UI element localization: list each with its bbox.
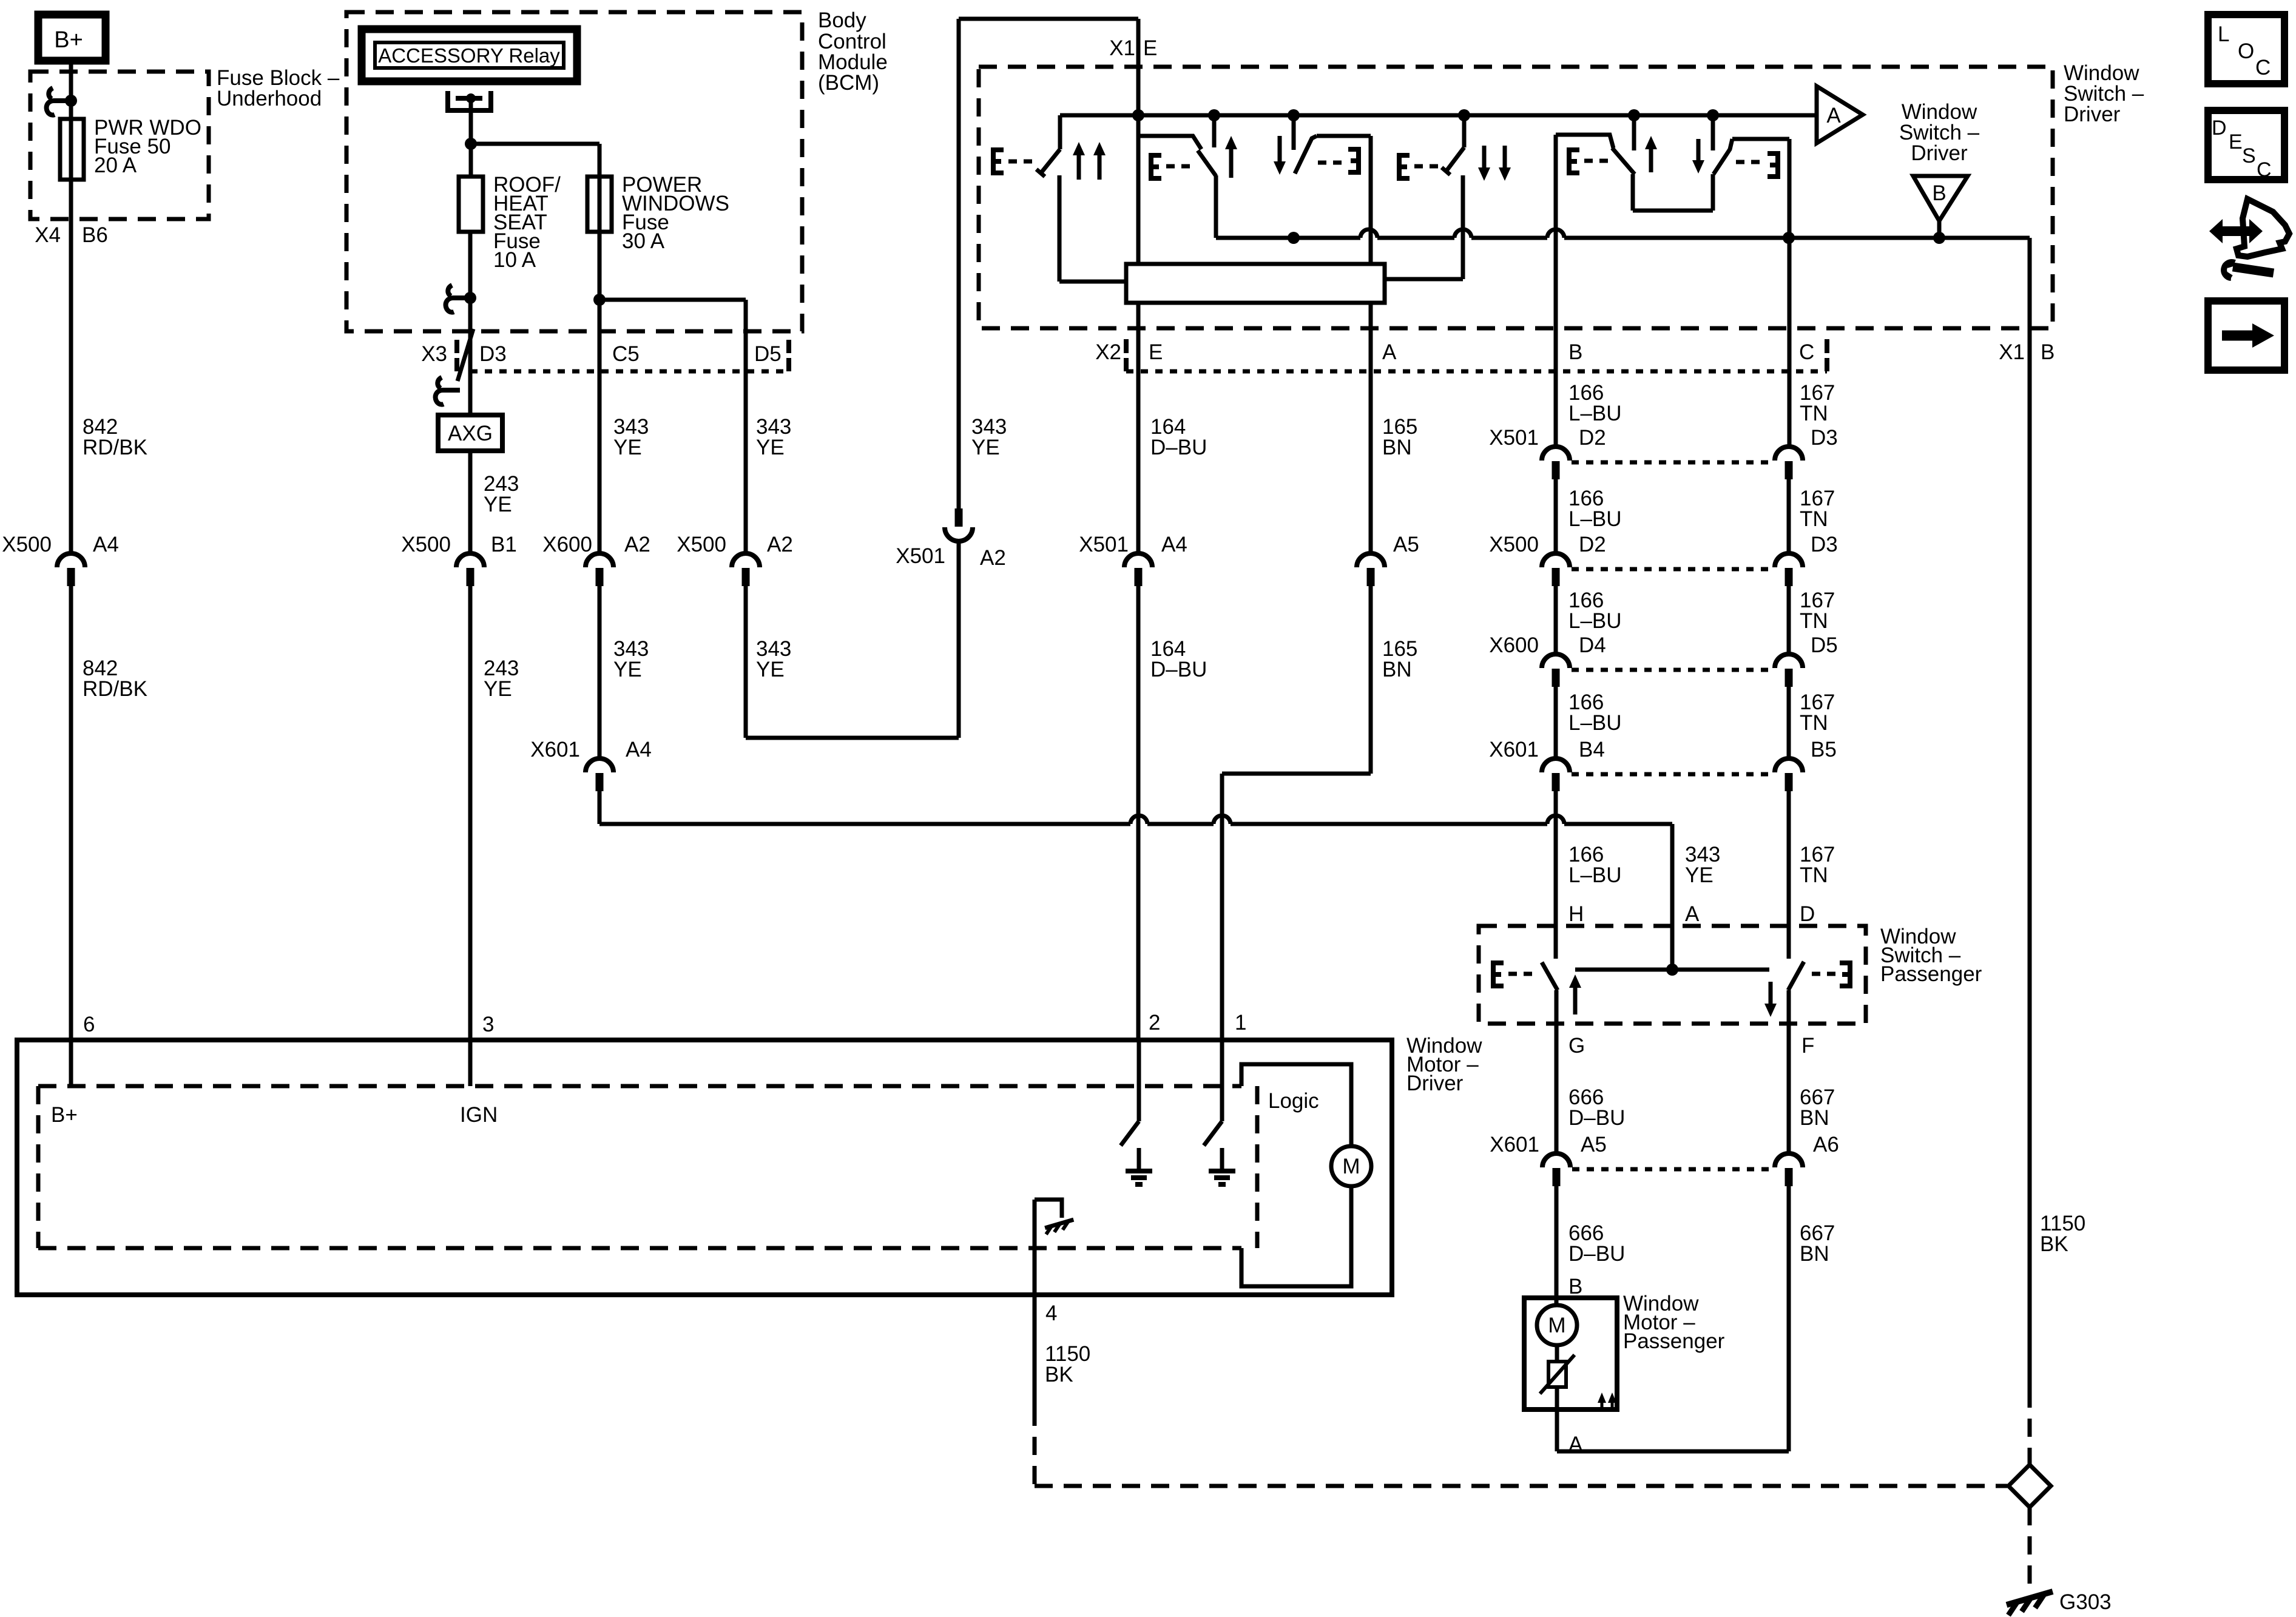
label PWR WDO Fuse 50 20 A (94, 116, 201, 177)
wire X1-B / 1150 BK right side (2028, 238, 2032, 1389)
passenger rocker U (1633, 174, 1713, 211)
svg-text:TN: TN (1800, 402, 1828, 425)
ground G303 (2007, 1592, 2053, 1615)
connector X600 D4 (1542, 654, 1570, 687)
bar crossover A wire (1360, 229, 1377, 238)
svg-text:TN: TN (1800, 711, 1828, 735)
label POWER WINDOWS Fuse 30 A (622, 173, 729, 253)
wire label 666 D-BU (upper) (1568, 1085, 1625, 1130)
window motor passenger box (1524, 1298, 1617, 1409)
wire 1150 BK from pin 4 (1033, 1295, 1037, 1408)
connector row dashes X500 (1572, 567, 1772, 572)
connector X501 D2 (1542, 447, 1570, 479)
bar crossover B wire (1547, 229, 1564, 238)
labels X601 A5 (666) (1490, 1133, 1607, 1156)
wire 166 L-BU segment 1 (1554, 135, 1558, 445)
motor M circle (passenger) (1537, 1305, 1577, 1345)
wire label 243 YE (upper) (484, 472, 519, 516)
driver rocker right finger (1317, 136, 1371, 265)
junction below relay (465, 138, 477, 150)
svg-text:ACCESSORY Relay: ACCESSORY Relay (378, 44, 560, 67)
svg-text:X4: X4 (35, 223, 61, 247)
wire motor to thermistor (1555, 1345, 1559, 1362)
passenger up arrow (switch) (1569, 974, 1581, 1014)
connector row dashes X601 A5-A6 (1572, 1167, 1773, 1172)
pin F label (1801, 1034, 1814, 1058)
label Window Switch - Driver (box) (2064, 61, 2144, 126)
svg-text:O: O (2238, 39, 2254, 63)
svg-text:Driver: Driver (1406, 1072, 1464, 1095)
wire 164 D-BU to motor pin 2 (1136, 586, 1141, 1040)
wire label 1150 BK (pin 4) (1045, 1342, 1090, 1386)
junction at fuse output (464, 292, 476, 304)
pin 3 label (482, 1013, 494, 1036)
connector X600 D5 (1775, 654, 1803, 687)
svg-text:D2: D2 (1579, 533, 1606, 556)
terminal hook below X3 (436, 377, 460, 405)
wire label 167 TN (3) (1800, 589, 1835, 633)
wire label 167 TN (5) (1800, 843, 1835, 887)
driver down stub (1292, 115, 1296, 150)
motor ground wire (pin 4) (1035, 1200, 1062, 1295)
separator X2 (1124, 339, 1129, 371)
wire label 166 L-BU (2) (1568, 487, 1622, 531)
svg-text:D–BU: D–BU (1568, 1106, 1625, 1130)
pin D label (1800, 902, 1815, 926)
bar junction B triangle (1933, 232, 1945, 244)
wire 666 D-BU from G (1555, 990, 1559, 1152)
passenger down E bracket (1736, 154, 1778, 177)
connector X600 pin A2 (586, 553, 613, 586)
connector X500 pin A4 (57, 553, 85, 586)
svg-text:B1: B1 (491, 533, 517, 556)
wire label 167 TN (4) (1800, 690, 1835, 735)
svg-text:A5: A5 (1581, 1133, 1607, 1156)
svg-text:X601: X601 (1489, 738, 1539, 761)
wire 166 L-BU segment 4 (1554, 687, 1558, 757)
connector row dashes X600 (1572, 668, 1772, 672)
driver up blade (1198, 150, 1216, 176)
svg-text:Passenger: Passenger (1880, 962, 1982, 986)
svg-text:D4: D4 (1579, 633, 1606, 657)
connector X601 pin A4 (586, 758, 613, 791)
relay armature contact (448, 91, 491, 144)
svg-text:D2: D2 (1579, 426, 1606, 450)
driver up stub (1212, 115, 1217, 147)
svg-text:A2: A2 (767, 533, 793, 556)
connector X601 B4 (1542, 758, 1570, 791)
svg-text:D3: D3 (1811, 426, 1838, 450)
wire 165 BN to motor pin 1 (1222, 586, 1371, 1040)
wire label 165 BN (upper) (1382, 415, 1417, 459)
labels X501 D2 (1489, 426, 1606, 450)
svg-text:C: C (2257, 158, 2272, 181)
fuse ROOF/HEAT SEAT 10A (459, 177, 483, 232)
labels X601 A4 (530, 738, 652, 761)
labels X600 D4 (1489, 633, 1606, 657)
pin A label (passenger switch) (1685, 902, 1700, 926)
connector row dashes X601 (1572, 772, 1772, 777)
label A5 (165) (1393, 533, 1419, 556)
svg-text:TN: TN (1800, 507, 1828, 531)
svg-text:D3: D3 (479, 342, 507, 366)
svg-text:A6: A6 (1813, 1133, 1839, 1156)
junction at POWER WINDOWS fuse output (593, 294, 606, 306)
wire label 1150 BK (right) (2040, 1212, 2085, 1256)
svg-text:B+: B+ (51, 1103, 78, 1127)
connector X501 D3 (1775, 447, 1803, 479)
pin 4 label (1045, 1301, 1057, 1325)
connector X601 B5 (1775, 758, 1803, 791)
label Window Switch - Driver (pointer) (1899, 100, 1980, 165)
svg-text:YE: YE (1685, 863, 1714, 887)
connector X601 A6 (667) (1775, 1153, 1803, 1186)
passenger lockout stub (1462, 115, 1467, 147)
svg-text:B: B (1568, 340, 1582, 364)
svg-text:B: B (1932, 181, 1946, 205)
bus junction dn2 (1707, 109, 1719, 121)
passenger switch left bracket (1493, 963, 1534, 986)
passenger switch down blade (1788, 962, 1804, 990)
svg-text:B5: B5 (1811, 738, 1837, 761)
svg-text:X1: X1 (1109, 36, 1135, 60)
junction at fuse input (65, 95, 77, 107)
wire label 667 BN (lower) (1800, 1221, 1835, 1266)
accessory relay dashed box (346, 12, 802, 331)
svg-text:D–BU: D–BU (1150, 436, 1207, 459)
wire 164 D-BU from X2-E (1136, 303, 1141, 552)
motor M circle (driver) (1331, 1146, 1371, 1186)
svg-text:X500: X500 (677, 533, 726, 556)
wire 167 TN segment 4 (1787, 687, 1791, 757)
connector X601 A5 (666) (1542, 1153, 1570, 1186)
svg-text:3: 3 (482, 1013, 494, 1036)
lockout switch stub (1058, 115, 1062, 149)
svg-text:A: A (1826, 104, 1841, 127)
wire label 842 RD/BK (lower) (83, 657, 147, 701)
label Body Control Module (BCM) (818, 8, 888, 95)
wire 166 L-BU segment 3 (1554, 586, 1558, 652)
pin B+ label (motor) (51, 1103, 78, 1127)
svg-text:YE: YE (971, 436, 1000, 459)
triangle A (to passenger switch) (1817, 86, 1863, 143)
bus junction dn1 (1288, 109, 1300, 121)
svg-text:YE: YE (613, 658, 642, 681)
passenger down arrows (1478, 146, 1511, 181)
svg-text:D3: D3 (1811, 533, 1838, 556)
connector row dashes X501 (1572, 461, 1772, 465)
svg-text:YE: YE (756, 658, 785, 681)
svg-text:D: D (2212, 116, 2227, 140)
connector X501 pin A2 (945, 508, 973, 541)
svg-text:2: 2 (1149, 1011, 1160, 1035)
svg-text:X600: X600 (542, 533, 592, 556)
driver down E bracket (1318, 149, 1359, 172)
svg-text:RD/BK: RD/BK (83, 436, 147, 459)
wire 343 YE horizontal run to passenger switch (599, 791, 1672, 970)
wire 343 YE from fuse (C5) (598, 232, 602, 552)
terminal hook above X3 (446, 285, 470, 312)
lockout E bracket (993, 150, 1035, 173)
svg-text:X601: X601 (1490, 1133, 1539, 1156)
driver rocker left finger (1138, 136, 1201, 265)
driver up contact E bracket (1151, 155, 1193, 178)
wire label 165 BN (lower) (1382, 637, 1417, 681)
wire passenger motor return (1557, 1409, 1789, 1451)
svg-text:Driver: Driver (2064, 103, 2121, 126)
label D5 (3) (1811, 633, 1838, 657)
pin 2 label (1149, 1011, 1160, 1035)
icon box LOC (2208, 15, 2284, 84)
passenger switch common bar (1575, 968, 1769, 972)
passenger lockout E bracket (1399, 155, 1441, 178)
svg-text:BN: BN (1382, 658, 1412, 681)
wire 667 BN to motor return (1787, 1186, 1791, 1451)
svg-text:BN: BN (1800, 1106, 1829, 1130)
connector X500 pin A2 (732, 553, 760, 586)
thermal limiter arrows (1598, 1393, 1616, 1408)
passenger down blade (1714, 139, 1789, 174)
labels X601 B4 (1489, 738, 1605, 761)
connector row label X4 B6 (35, 223, 108, 247)
labels X500 B1 (401, 533, 517, 556)
logic box (1241, 1064, 1351, 1286)
wire label 243 YE (lower) (484, 657, 519, 701)
svg-text:E: E (1143, 36, 1157, 60)
fuse POWER WINDOWS 30A (587, 177, 612, 232)
passenger up blade (1556, 135, 1635, 174)
wire label 164 D-BU (upper) (1150, 415, 1207, 459)
bar junction 343 YE (1666, 964, 1678, 976)
svg-text:YE: YE (756, 436, 785, 459)
motor switch 2 to ground (1121, 1040, 1139, 1146)
svg-text:Passenger: Passenger (1623, 1329, 1725, 1353)
wire 666 through motor (1555, 1387, 1559, 1409)
ground (motor logic) (1045, 1220, 1073, 1234)
svg-text:A4: A4 (1161, 533, 1187, 556)
label D5 (754, 342, 782, 366)
svg-text:A2: A2 (980, 546, 1006, 570)
wire 343 YE from D5 (744, 300, 748, 552)
wire label 666 D-BU (lower) (1568, 1221, 1625, 1266)
wire 243 YE to X500 B1 (468, 451, 473, 552)
switch feed bus (1060, 113, 1817, 118)
svg-text:M: M (1548, 1314, 1565, 1337)
pin G label (1568, 1034, 1585, 1058)
svg-text:M: M (1342, 1155, 1360, 1178)
icon box DESC (2208, 110, 2284, 181)
wire label 842 RD/BK (upper) (83, 415, 147, 459)
svg-text:D5: D5 (1811, 633, 1838, 657)
svg-text:C: C (1799, 340, 1814, 364)
bus junction up1 (1208, 109, 1220, 121)
svg-text:X2: X2 (1095, 340, 1121, 364)
window motor driver box (17, 1040, 1392, 1295)
svg-text:Logic: Logic (1268, 1089, 1319, 1113)
svg-text:G303: G303 (2059, 1590, 2112, 1614)
fuse block - underhood dashed box (30, 72, 209, 219)
triangle B (from passenger switch) (1913, 176, 1968, 221)
label ROOF HEAT SEAT Fuse 10 A (493, 173, 561, 272)
wire branch to D5 (599, 298, 746, 302)
separator after C (1825, 339, 1829, 371)
wire 842 RD/BK to window motor driver (69, 586, 73, 1086)
svg-text:L–BU: L–BU (1568, 402, 1622, 425)
crossover at 165 wire (1214, 815, 1231, 824)
svg-text:IGN: IGN (460, 1103, 498, 1127)
bus junction E (1132, 109, 1144, 121)
crossover at 166 wire (1547, 815, 1564, 824)
lockout switch lower contact (1059, 175, 1127, 282)
window switch driver dashed box (979, 67, 2053, 328)
label C5 (612, 342, 640, 366)
svg-text:Body: Body (818, 8, 866, 32)
label D3 (2) (1811, 533, 1838, 556)
svg-text:YE: YE (613, 436, 642, 459)
dashed wire splice to ground (2028, 1507, 2032, 1586)
passenger down arrow (switch) (1764, 982, 1777, 1017)
driver down blade (1295, 136, 1317, 174)
wire 343 YE to X501 A2 (746, 542, 959, 738)
connector X500 D3 (1775, 553, 1803, 586)
svg-text:E: E (1149, 340, 1163, 364)
svg-text:X501: X501 (1489, 426, 1539, 450)
wire triangle B to bar (1937, 221, 1942, 238)
motor internal dashed boundary (38, 1086, 1257, 1248)
svg-text:L: L (2218, 22, 2229, 46)
svg-text:X3: X3 (421, 342, 447, 366)
connector X501 pin A5 (165) (1357, 553, 1385, 586)
svg-text:YE: YE (484, 493, 512, 516)
pin B label (passenger motor) (1568, 1275, 1582, 1298)
motor switch 1 to ground (1204, 1040, 1222, 1146)
wire label 343 YE (BCM output) (971, 415, 1007, 459)
svg-text:D–BU: D–BU (1568, 1242, 1625, 1266)
svg-text:1: 1 (1235, 1011, 1246, 1035)
svg-text:YE: YE (484, 677, 512, 701)
svg-text:BN: BN (1800, 1242, 1829, 1266)
labels X500 A4 (2, 533, 119, 556)
connector X500 D2 (1542, 553, 1570, 586)
svg-text:30 A: 30 A (622, 229, 665, 253)
wire from relay to ROOF/HEAT SEAT fuse (469, 110, 473, 177)
label Window Motor - Driver (1406, 1034, 1482, 1095)
labels X500 D2 (1489, 533, 1606, 556)
svg-text:6: 6 (83, 1013, 95, 1036)
bus junction up2 (1628, 109, 1640, 121)
svg-text:20 A: 20 A (94, 154, 137, 177)
driver up lower contact (1214, 175, 1218, 238)
svg-text:L–BU: L–BU (1568, 507, 1622, 531)
svg-text:AXG: AXG (448, 422, 493, 445)
svg-text:A: A (1685, 902, 1700, 926)
thermal limiter (passenger motor) (1540, 1355, 1575, 1394)
BCM boundary dotted row (left) (470, 370, 788, 374)
wire label 343 YE (passenger) (1685, 843, 1720, 887)
svg-text:D–BU: D–BU (1150, 658, 1207, 681)
labels X600 A2 (542, 533, 650, 556)
label Window Motor - Passenger (1623, 1292, 1725, 1353)
wire 243 YE to window motor driver (468, 586, 473, 1086)
svg-text:B6: B6 (82, 223, 108, 247)
svg-text:BN: BN (1382, 436, 1412, 459)
svg-text:E: E (2229, 130, 2243, 154)
svg-text:H: H (1568, 902, 1584, 926)
svg-text:X500: X500 (1489, 533, 1539, 556)
switch output bar (1216, 236, 2030, 240)
wire branch to POWER WINDOWS fuse (471, 144, 599, 300)
svg-text:X1: X1 (1999, 340, 2025, 364)
ground (switch 1) (1209, 1148, 1235, 1184)
svg-text:C5: C5 (612, 342, 640, 366)
bar junction driver-down (1288, 232, 1300, 244)
splice diamond (2008, 1465, 2051, 1507)
bus junction lockout2 (1458, 109, 1470, 121)
wire label 167 TN (1) (1800, 381, 1835, 425)
passenger switch up blade (1542, 962, 1558, 990)
fuse PWR WDO Fuse 50 20A (60, 119, 84, 180)
lockout arrows up-up (1073, 142, 1106, 180)
svg-text:X500: X500 (401, 533, 451, 556)
passenger lockout blade (1442, 147, 1464, 175)
wire C from rocker (1788, 139, 1792, 238)
wire 167 TN segment 5 (1787, 791, 1791, 959)
svg-text:B: B (1568, 1275, 1582, 1298)
svg-text:4: 4 (1045, 1301, 1057, 1325)
rocker link wire (1383, 175, 1463, 279)
wire label 667 BN (upper) (1800, 1085, 1835, 1130)
svg-text:BK: BK (1045, 1363, 1073, 1386)
label Window Switch - Passenger (1880, 925, 1982, 986)
wire label 164 D-BU (lower) (1150, 637, 1207, 681)
power symbol B+ (battery feed) (38, 15, 106, 61)
passenger up contact E bracket (1569, 150, 1608, 173)
passenger switch right bracket (1812, 963, 1850, 986)
lockout switch blade (1036, 149, 1060, 177)
svg-text:A: A (1382, 340, 1397, 364)
separator X3 (454, 340, 459, 371)
wire label 166 L-BU (4) (1568, 690, 1622, 735)
svg-text:TN: TN (1800, 863, 1828, 887)
svg-text:F: F (1801, 1034, 1814, 1058)
svg-text:B4: B4 (1579, 738, 1605, 761)
svg-text:A4: A4 (93, 533, 119, 556)
svg-text:A2: A2 (624, 533, 650, 556)
window switch passenger dashed box (1479, 926, 1866, 1024)
svg-text:L–BU: L–BU (1568, 711, 1622, 735)
wire 167 TN segment 2 (1787, 479, 1791, 552)
wire BCM X1-E down to switch bus (1136, 19, 1141, 265)
pin IGN label (motor) (460, 1103, 498, 1127)
label Fuse Block - Underhood (217, 66, 340, 110)
BCM boundary dotted row (right) (1126, 370, 1827, 374)
passenger up stub (1632, 115, 1636, 150)
pin 1 label (1235, 1011, 1246, 1035)
wire label 166 L-BU (1) (1568, 381, 1622, 425)
driver rocker bar box (1126, 264, 1385, 303)
svg-text:X501: X501 (1079, 533, 1129, 556)
wire label 343 YE (D5 upper) (756, 415, 791, 459)
labels X1 B (right) (1999, 340, 2055, 364)
wire ROOF fuse to AXG (468, 232, 473, 415)
pin H label (1568, 902, 1584, 926)
ground (switch 2) (1126, 1148, 1152, 1184)
dashed wire to splice (2028, 1389, 2032, 1465)
passenger down arrow (1692, 139, 1704, 174)
icon adjust (hand with arrow and wrench) (2209, 199, 2289, 278)
icon box arrow (next) (2208, 301, 2284, 370)
svg-text:A5: A5 (1393, 533, 1419, 556)
